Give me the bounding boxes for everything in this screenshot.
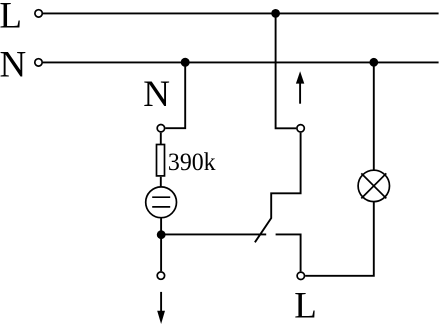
svg-text:390k: 390k <box>168 147 216 176</box>
svg-text:N: N <box>0 45 26 86</box>
svg-text:N: N <box>143 74 170 115</box>
svg-text:L: L <box>0 0 22 36</box>
svg-text:L: L <box>294 286 317 326</box>
